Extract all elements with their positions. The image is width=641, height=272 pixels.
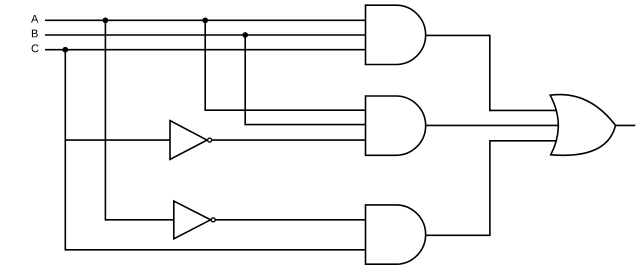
wire C down to bottom AND input xyxy=(65,50,365,250)
wire input A xyxy=(45,19,366,21)
junction dot on C xyxy=(62,47,68,53)
wire top AND output to OR input 1 xyxy=(426,35,557,110)
AND gate middle xyxy=(366,96,426,155)
node A label xyxy=(31,15,38,23)
wire OR output xyxy=(615,124,635,126)
inverter NOT1 xyxy=(170,121,212,160)
wire B down to middle AND input 2 xyxy=(245,35,365,125)
node B label xyxy=(32,30,38,38)
wire middle AND output to OR input 2 xyxy=(426,124,559,126)
wire input B xyxy=(45,34,366,36)
AND gate bottom xyxy=(366,205,426,264)
wire NOT1 output to middle AND input 3 xyxy=(212,139,366,141)
wire C branch to NOT1 input xyxy=(65,139,170,141)
AND gate top xyxy=(366,5,426,64)
wire A down to middle AND input 1 xyxy=(205,20,365,110)
wire bottom AND output to OR input 3 xyxy=(426,141,557,236)
wire input C xyxy=(45,49,366,51)
junction dot 2 on A xyxy=(202,17,208,23)
wire NOT2 output to bottom AND input 1 xyxy=(215,219,365,221)
inverter NOT2 xyxy=(174,201,215,239)
node C label xyxy=(32,44,39,52)
junction dot on B xyxy=(242,32,248,38)
junction dot 1 on A xyxy=(103,17,109,23)
wire A down to NOT2 input xyxy=(105,20,173,220)
OR gate xyxy=(550,95,615,156)
